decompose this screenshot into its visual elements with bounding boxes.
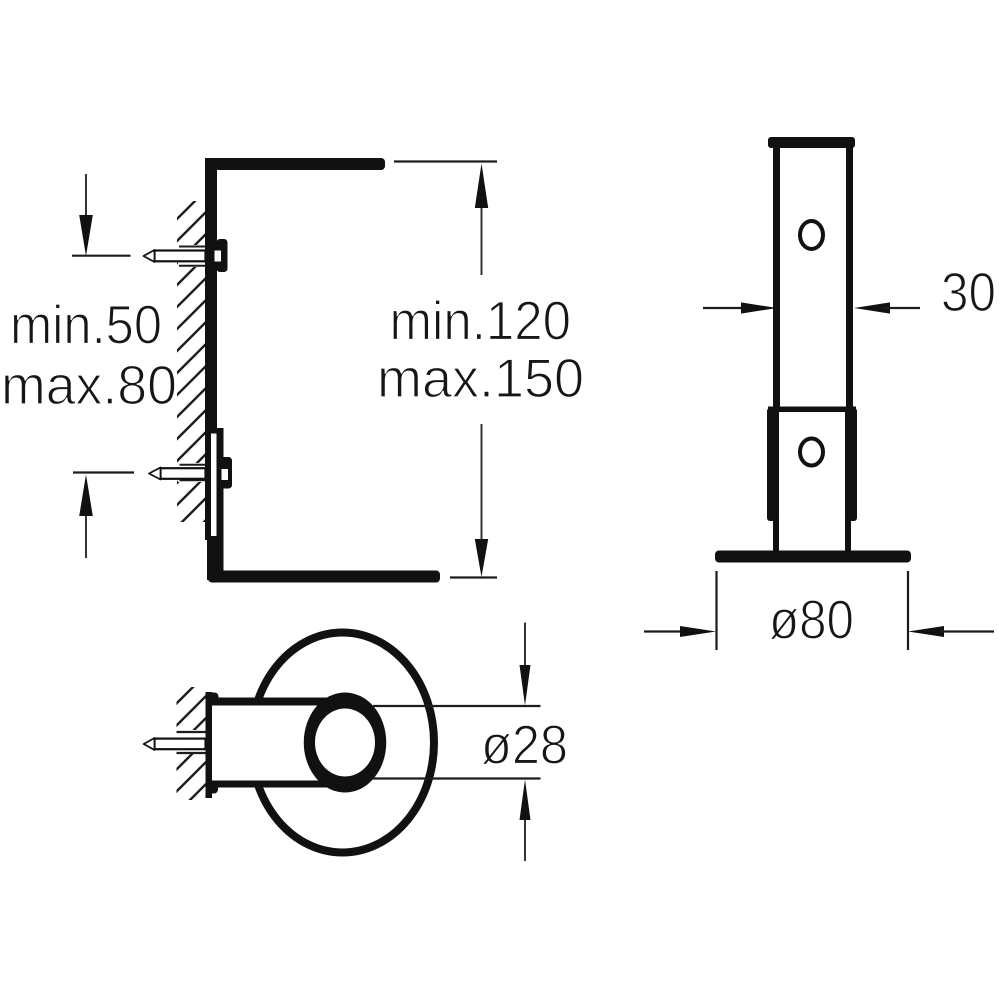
svg-text:ø28: ø28 (481, 714, 568, 776)
svg-text:max.150: max.150 (377, 347, 584, 409)
svg-text:min.120: min.120 (390, 290, 572, 352)
svg-text:min.50: min.50 (10, 294, 162, 356)
svg-text:ø80: ø80 (769, 589, 854, 651)
svg-text:max.80: max.80 (1, 354, 177, 416)
svg-text:30: 30 (941, 261, 996, 323)
